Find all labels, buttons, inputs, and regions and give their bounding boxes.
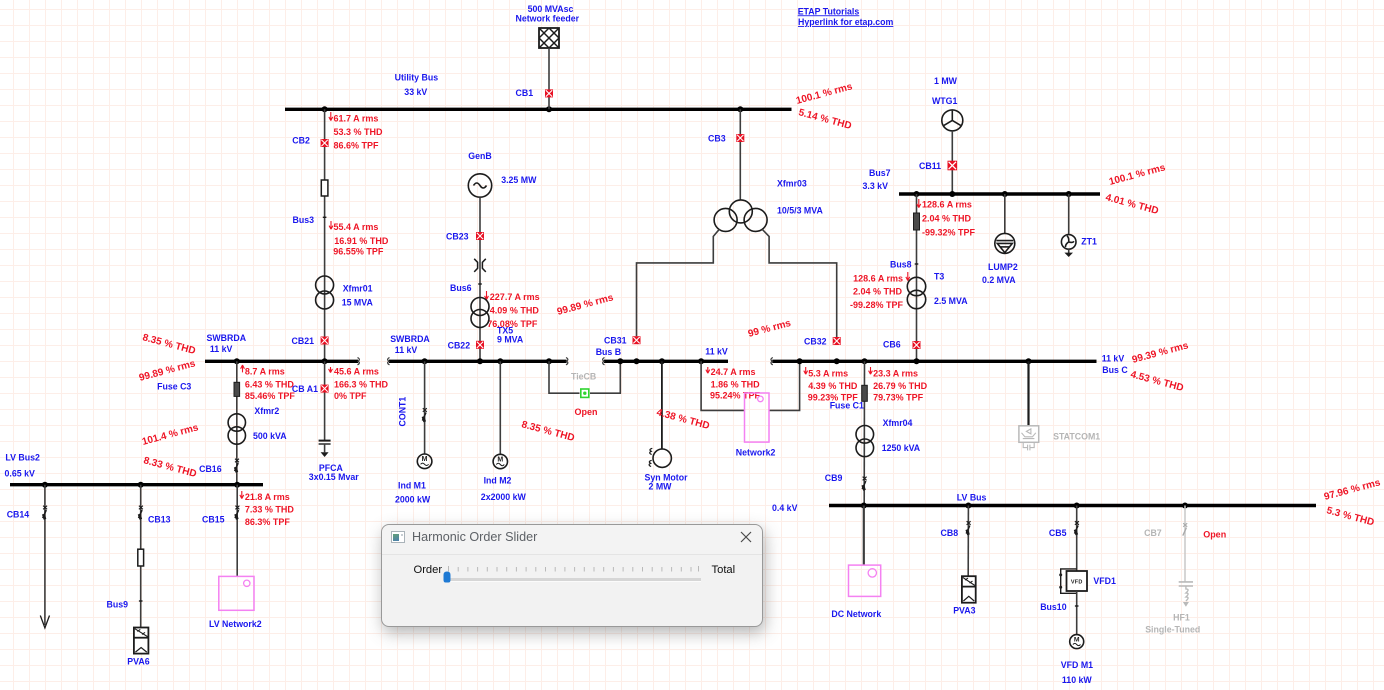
svg-text:Network2: Network2 (736, 447, 776, 457)
svg-text:11 kV: 11 kV (395, 345, 418, 355)
svg-text:M: M (1074, 637, 1080, 644)
svg-text:100.1 % rms: 100.1 % rms (1108, 162, 1167, 188)
breaker CB11 (919, 161, 957, 171)
svg-text:SWBRDA: SWBRDA (390, 334, 430, 344)
node LV Bus2 (CB15 tap) (234, 482, 240, 488)
node Bus C (Fuse C1 tap) (862, 358, 868, 364)
node SWBRDA-R (Ind M2 tap) (497, 358, 503, 364)
svg-text:2000 kW: 2000 kW (395, 494, 431, 504)
svg-text:99.89 % rms: 99.89 % rms (138, 358, 197, 384)
motor Ind M2 2x2000 kW (481, 361, 527, 502)
annotation Network2 left currents (706, 367, 761, 401)
svg-text:GenB: GenB (468, 151, 491, 161)
svg-text:3.25 MW: 3.25 MW (501, 175, 537, 185)
breaker CB13 (switch) (139, 485, 171, 628)
svg-text:2 MW: 2 MW (649, 482, 673, 492)
node Bus7 (T3 tap) (914, 191, 920, 197)
statcom STATCOM1 (1019, 361, 1100, 450)
svg-text:Bus8: Bus8 (890, 259, 912, 269)
svg-text:Bus7: Bus7 (869, 168, 891, 178)
svg-text:11 kV: 11 kV (705, 346, 728, 356)
node Bus7 (ZT1 tap) (1066, 191, 1072, 197)
svg-text:100.1 % rms: 100.1 % rms (795, 81, 854, 107)
node Bus C (Network2 tap) (797, 358, 803, 364)
wire CB2 branch (Utility Bus to SWBRDA) (324, 109, 326, 359)
annotation CB2 branch currents (329, 112, 383, 150)
wind turbine WTG1 1 MW (932, 76, 963, 131)
contactor CONT1 (398, 361, 427, 454)
svg-text:CB13: CB13 (148, 514, 171, 524)
svg-text:11 kV: 11 kV (1102, 354, 1125, 364)
bus SWBRDA 11 kV (right section) (389, 334, 567, 361)
dialog title text (412, 530, 537, 544)
svg-text:CB14: CB14 (7, 510, 30, 520)
node SWBRDA (CB21 tap) (322, 358, 328, 364)
wire T3 branch (Bus7 to Bus C) (916, 194, 918, 360)
node Bus B (Network2 tap) (698, 358, 704, 364)
annotation CB32 branch currents (804, 367, 858, 402)
svg-text:8.7 A rms: 8.7 A rms (245, 366, 285, 376)
network LV Network2 (209, 576, 262, 629)
svg-text:33 kV: 33 kV (404, 87, 427, 97)
node Bus10 (1040, 591, 1078, 635)
node Bus6 (450, 283, 482, 293)
breaker CB23 (446, 232, 484, 242)
wire Xfmr03 left leg to CB31 (637, 229, 720, 336)
bus Utility Bus (285, 72, 792, 109)
transformer Xfmr03 10/5/3 MVA (3-winding) (714, 179, 823, 232)
node Bus B (Syn Motor tap) (659, 358, 665, 364)
svg-text:HF1: HF1 (1173, 613, 1190, 623)
svg-text:2x2000 kW: 2x2000 kW (481, 492, 527, 502)
svg-text:2.5 MVA: 2.5 MVA (934, 296, 968, 306)
wire CB A1 branch (324, 361, 326, 440)
svg-text:CB21: CB21 (292, 336, 315, 346)
dialog app icon (391, 531, 405, 543)
svg-text:96.55% TPF: 96.55% TPF (333, 247, 384, 257)
svg-text:CB6: CB6 (883, 340, 901, 350)
dialog slider label Total (712, 564, 736, 576)
svg-text:85.46% TPF: 85.46% TPF (245, 391, 296, 401)
svg-text:Open: Open (1203, 529, 1226, 539)
bus end hook (right SWBRDA right end) (566, 358, 568, 365)
svg-text:0.65 kV: 0.65 kV (5, 469, 35, 479)
svg-text:26.79 % THD: 26.79 % THD (873, 381, 928, 391)
svg-text:2.04 % THD: 2.04 % THD (922, 214, 972, 224)
node on Utility Bus (CB2 tap) (322, 106, 328, 112)
svg-text:ZT1: ZT1 (1081, 237, 1097, 247)
svg-text:M: M (422, 456, 428, 463)
svg-text:21.8 A rms: 21.8 A rms (245, 492, 290, 502)
svg-text:11 kV: 11 kV (210, 344, 233, 354)
svg-text:Hyperlink for etap.com: Hyperlink for etap.com (798, 17, 894, 27)
svg-text:SWBRDA: SWBRDA (207, 333, 247, 343)
breaker CB6 (883, 340, 921, 350)
svg-text:ETAP Tutorials: ETAP Tutorials (798, 6, 860, 16)
svg-text:CB22: CB22 (448, 340, 471, 350)
svg-text:500 kVA: 500 kVA (253, 431, 287, 441)
svg-text:101.4 % rms: 101.4 % rms (141, 422, 200, 448)
svg-text:7.33 % THD: 7.33 % THD (245, 505, 295, 515)
annotation Fuse C1 currents (869, 367, 928, 402)
svg-text:CB23: CB23 (446, 232, 469, 242)
svg-text:24.7 A rms: 24.7 A rms (711, 367, 756, 377)
svg-text:Ind M2: Ind M2 (484, 476, 512, 486)
svg-text:5.3 A rms: 5.3 A rms (808, 368, 848, 378)
svg-text:TieCB: TieCB (571, 371, 596, 381)
svg-text:-99.32% TPF: -99.32% TPF (922, 228, 976, 238)
svg-text:LUMP2: LUMP2 (988, 262, 1018, 272)
svg-text:VFD1: VFD1 (1093, 576, 1116, 586)
node Bus8 (890, 259, 918, 269)
svg-text:0.2 MVA: 0.2 MVA (982, 275, 1016, 285)
wire network feeder to CB1 (548, 48, 550, 109)
svg-text:WTG1: WTG1 (932, 96, 958, 106)
svg-text:8.35 % THD: 8.35 % THD (520, 419, 575, 444)
annotation CB A1 currents (329, 366, 389, 401)
svg-text:6.43 % THD: 6.43 % THD (245, 379, 295, 389)
breaker CB8 (switch) (941, 506, 971, 577)
svg-text:CB5: CB5 (1049, 528, 1067, 538)
svg-text:4.01 % THD: 4.01 % THD (1104, 192, 1159, 217)
annotation CB15 currents (240, 491, 295, 527)
svg-text:53.3 % THD: 53.3 % THD (334, 127, 384, 137)
svg-text:8.33 % THD: 8.33 % THD (142, 455, 197, 480)
svg-text:STATCOM1: STATCOM1 (1053, 432, 1100, 442)
svg-text:110 kW: 110 kW (1062, 675, 1093, 685)
svg-text:CB15: CB15 (202, 514, 225, 524)
node Bus B (TieCB tap) (617, 358, 623, 364)
svg-text:VFD M1: VFD M1 (1061, 660, 1093, 670)
svg-text:Fuse C1: Fuse C1 (830, 400, 864, 410)
fuse on T3 branch (914, 213, 920, 230)
wire WTG1 to Bus7 (951, 131, 953, 194)
svg-text:227.7 A rms: 227.7 A rms (490, 292, 540, 302)
reactor on GenB branch (474, 259, 486, 272)
svg-text:8.35 % THD: 8.35 % THD (141, 332, 196, 357)
network DC Network (831, 506, 881, 620)
node LV Bus (VFD1 tap) (1074, 503, 1080, 509)
pv array PVA6 (127, 628, 149, 667)
wire GenB branch to SWBRDA (479, 197, 481, 359)
node Bus C (CB32 tap) (834, 358, 840, 364)
svg-text:CB9: CB9 (825, 473, 843, 483)
wire Fuse C1 branch (Bus C to LV Bus) (863, 361, 865, 504)
svg-text:4.39 % THD: 4.39 % THD (808, 381, 858, 391)
svg-text:CB3: CB3 (708, 134, 726, 144)
svg-text:15 MVA: 15 MVA (342, 298, 374, 308)
node Bus C (STATCOM1 tap) (1026, 358, 1032, 364)
generator GenB 3.25 MW (468, 151, 537, 197)
motor Syn Motor 2 MW (645, 361, 689, 491)
node SWBRDA-R (CONT1 tap) (422, 358, 428, 364)
node SWBRDA-R (TX5 tap) (477, 358, 483, 364)
load LUMP2 0.2 MVA (982, 194, 1018, 285)
svg-text:Xfmr01: Xfmr01 (343, 283, 373, 293)
breaker CB A1 (292, 384, 329, 394)
utility U1 Network feeder 500 MVAsc (516, 4, 580, 48)
breaker CB1 (516, 88, 554, 98)
svg-text:500 MVAsc: 500 MVAsc (528, 4, 574, 14)
tie breaker TieCB (open) (549, 361, 620, 417)
node LV Bus (DC Network tap) (861, 503, 867, 509)
svg-text:LV Network2: LV Network2 (209, 619, 262, 629)
svg-text:Network feeder: Network feeder (516, 14, 580, 24)
breaker CB7 (switch, open, de-energized) (1144, 506, 1226, 582)
breaker CB15 (switch) (202, 485, 239, 577)
node Bus C (CB6 tap) (914, 358, 920, 364)
fuse Fuse C3 (157, 361, 240, 483)
svg-text:0.4 kV: 0.4 kV (772, 503, 798, 513)
svg-text:Bus10: Bus10 (1040, 602, 1067, 612)
svg-text:CB11: CB11 (919, 161, 941, 171)
wire CB3 branch (Utility Bus to Xfmr03) (739, 109, 741, 200)
svg-text:LV Bus: LV Bus (957, 493, 987, 503)
transformer Xfmr01 15 MVA (316, 276, 374, 309)
svg-text:2.04 % THD: 2.04 % THD (853, 287, 903, 297)
svg-text:DC Network: DC Network (831, 609, 881, 619)
svg-text:CB31: CB31 (604, 335, 627, 345)
bus end hook (left SWBRDA right end) (358, 358, 360, 365)
node Bus B (CB31 tap) (634, 358, 640, 364)
vfd VFD1 (1059, 569, 1116, 593)
svg-text:5.14 % THD: 5.14 % THD (797, 107, 852, 132)
node LV Bus2 (CB14 tap) (42, 482, 48, 488)
bus Bus B 11 kV (596, 346, 728, 361)
bus end hook (right SWBRDA left end) (388, 358, 390, 365)
svg-text:Xfmr03: Xfmr03 (777, 179, 807, 189)
node Bus9 (107, 600, 143, 610)
bus end hook (Bus B left end) (603, 358, 605, 365)
svg-text:Open: Open (575, 407, 598, 417)
svg-text:128.6 A rms: 128.6 A rms (853, 274, 903, 284)
svg-text:0% TPF: 0% TPF (334, 391, 367, 401)
svg-text:4.09 % THD: 4.09 % THD (490, 305, 540, 315)
svg-text:128.6 A rms: 128.6 A rms (922, 200, 972, 210)
bus Bus C 11 kV (772, 354, 1128, 375)
svg-text:61.7 A rms: 61.7 A rms (334, 113, 379, 123)
wire Xfmr03 right leg to CB32 (762, 229, 837, 337)
svg-text:16.91 % THD: 16.91 % THD (334, 236, 389, 246)
bus end hook (Bus C left end) (771, 358, 773, 365)
svg-text:CONT1: CONT1 (398, 397, 408, 427)
transformer TX5 9 MVA (471, 298, 524, 345)
dialog slider ticks (445, 565, 703, 573)
svg-text:86.6% TPF: 86.6% TPF (334, 140, 380, 150)
annotation TX5 currents (485, 291, 540, 329)
bus Bus7 3.3 kV (863, 168, 1101, 194)
svg-text:99.89 % rms: 99.89 % rms (556, 292, 615, 318)
svg-text:Xfmr2: Xfmr2 (254, 406, 279, 416)
svg-text:95.24% TPF: 95.24% TPF (710, 391, 761, 401)
dialog close button (740, 531, 752, 543)
node Bus3 (293, 215, 327, 225)
motor VFD M1 110 kW (1061, 635, 1093, 686)
node LV Bus (PVA3 tap) (965, 503, 971, 509)
node on Utility Bus (CB3 tap) (737, 106, 743, 112)
breaker CB5 (switch) (1049, 506, 1079, 572)
dialog slider thumb (443, 571, 451, 583)
svg-text:PVA3: PVA3 (953, 606, 975, 616)
svg-text:1 MW: 1 MW (934, 76, 958, 86)
breaker CB21 (292, 336, 329, 346)
svg-text:4.53 % THD: 4.53 % THD (1129, 369, 1184, 394)
motor Ind M1 2000 kW (395, 454, 432, 504)
transformer T3 2.5 MVA (907, 272, 968, 309)
svg-text:CB7: CB7 (1144, 528, 1162, 538)
svg-text:Single-Tuned: Single-Tuned (1145, 624, 1200, 634)
fuse Fuse C1 (830, 385, 868, 410)
breaker CB32 (804, 336, 841, 346)
svg-text:Bus9: Bus9 (107, 600, 129, 610)
svg-text:10/5/3 MVA: 10/5/3 MVA (777, 206, 823, 216)
svg-text:Fuse C3: Fuse C3 (157, 382, 191, 392)
bus LV Bus2 0.65 kV (5, 453, 264, 485)
node LV Bus (HF1 tap) (1182, 503, 1188, 509)
inline device on CB2 branch (rect) (321, 180, 328, 196)
annotation Fuse C3 currents (241, 365, 296, 401)
bus SWBRDA 11 kV (left section) (205, 333, 358, 361)
svg-text:23.3 A rms: 23.3 A rms (873, 368, 918, 378)
svg-text:CB1: CB1 (516, 88, 534, 98)
svg-text:CB A1: CB A1 (292, 384, 318, 394)
svg-text:VFD: VFD (1071, 580, 1083, 586)
svg-text:PVA6: PVA6 (127, 657, 149, 667)
node SWBRDA-R (TieCB tap) (546, 358, 552, 364)
svg-text:Bus B: Bus B (596, 347, 621, 357)
grounding transformer ZT1 (1061, 194, 1097, 257)
breaker CB9 (switch) (825, 473, 867, 490)
svg-text:LV Bus2: LV Bus2 (5, 453, 40, 463)
network Network2 (701, 361, 800, 457)
svg-text:5.3 % THD: 5.3 % THD (1325, 505, 1375, 528)
svg-text:CB16: CB16 (199, 464, 222, 474)
node Bus7 (LUMP2 tap) (1002, 191, 1008, 197)
dialog title bar (382, 525, 762, 555)
breaker CB3 (708, 134, 744, 144)
breaker CB2 (292, 135, 328, 147)
svg-text:CB8: CB8 (941, 528, 959, 538)
pv array PVA3 (953, 576, 976, 615)
node on Utility Bus (CB1 tap) (546, 106, 552, 112)
svg-text:86.3% TPF: 86.3% TPF (245, 517, 291, 527)
dialog: Harmonic Order Slider (381, 524, 763, 627)
svg-text:3x0.15 Mvar: 3x0.15 Mvar (309, 472, 359, 482)
dialog slider track (446, 578, 701, 582)
svg-text:Bus3: Bus3 (293, 215, 315, 225)
node LV Bus2 (CB13 tap) (138, 482, 144, 488)
svg-text:9 MVA: 9 MVA (497, 334, 524, 344)
svg-text:97.96 % rms: 97.96 % rms (1323, 477, 1382, 503)
svg-text:-99.28% TPF: -99.28% TPF (850, 300, 904, 310)
transformer Xfmr2 500 kVA (228, 406, 287, 444)
bus LV Bus 0.4 kV (772, 493, 1316, 514)
svg-text:99.39 % rms: 99.39 % rms (1131, 340, 1190, 366)
svg-text:Bus C: Bus C (1102, 365, 1128, 375)
breaker CB16 (switch) (199, 459, 239, 474)
annotation Bus7/T3 currents (917, 199, 976, 238)
harmonic filter HF1 Single-Tuned (de-energized) (1145, 582, 1200, 635)
svg-text:166.3 % THD: 166.3 % THD (334, 379, 389, 389)
svg-text:Xfmr04: Xfmr04 (883, 418, 913, 428)
svg-text:CB2: CB2 (292, 135, 310, 145)
dialog slider label Order (414, 564, 443, 576)
svg-text:M: M (497, 456, 503, 463)
svg-text:79.73% TPF: 79.73% TPF (873, 392, 924, 402)
annotation Bus3 currents (329, 221, 389, 257)
node SWBRDA (Fuse C3 tap) (234, 358, 240, 364)
svg-text:T3: T3 (934, 272, 944, 282)
annotation Bus8 currents (850, 272, 910, 310)
capacitor PFCA 3x0.15 Mvar (309, 441, 359, 483)
inline device on Bus9 branch (rect) (138, 549, 144, 566)
svg-text:1250 kVA: 1250 kVA (882, 443, 921, 453)
svg-text:Ind M1: Ind M1 (398, 480, 426, 490)
transformer Xfmr04 1250 kVA (856, 418, 921, 456)
svg-text:45.6 A rms: 45.6 A rms (334, 366, 379, 376)
breaker CB22 (448, 340, 484, 350)
svg-text:CB32: CB32 (804, 336, 827, 346)
breaker CB14 (switch) with feeder arrow (7, 485, 50, 628)
svg-text:Bus6: Bus6 (450, 283, 472, 293)
svg-text:3.3 kV: 3.3 kV (863, 181, 889, 191)
svg-text:99 % rms: 99 % rms (747, 318, 793, 340)
svg-text:55.4 A rms: 55.4 A rms (334, 222, 379, 232)
svg-text:1.86 % THD: 1.86 % THD (711, 379, 761, 389)
node Bus7 (WTG1 tap) (949, 191, 955, 197)
breaker CB31 (604, 335, 641, 345)
svg-text:Utility Bus: Utility Bus (395, 72, 439, 82)
